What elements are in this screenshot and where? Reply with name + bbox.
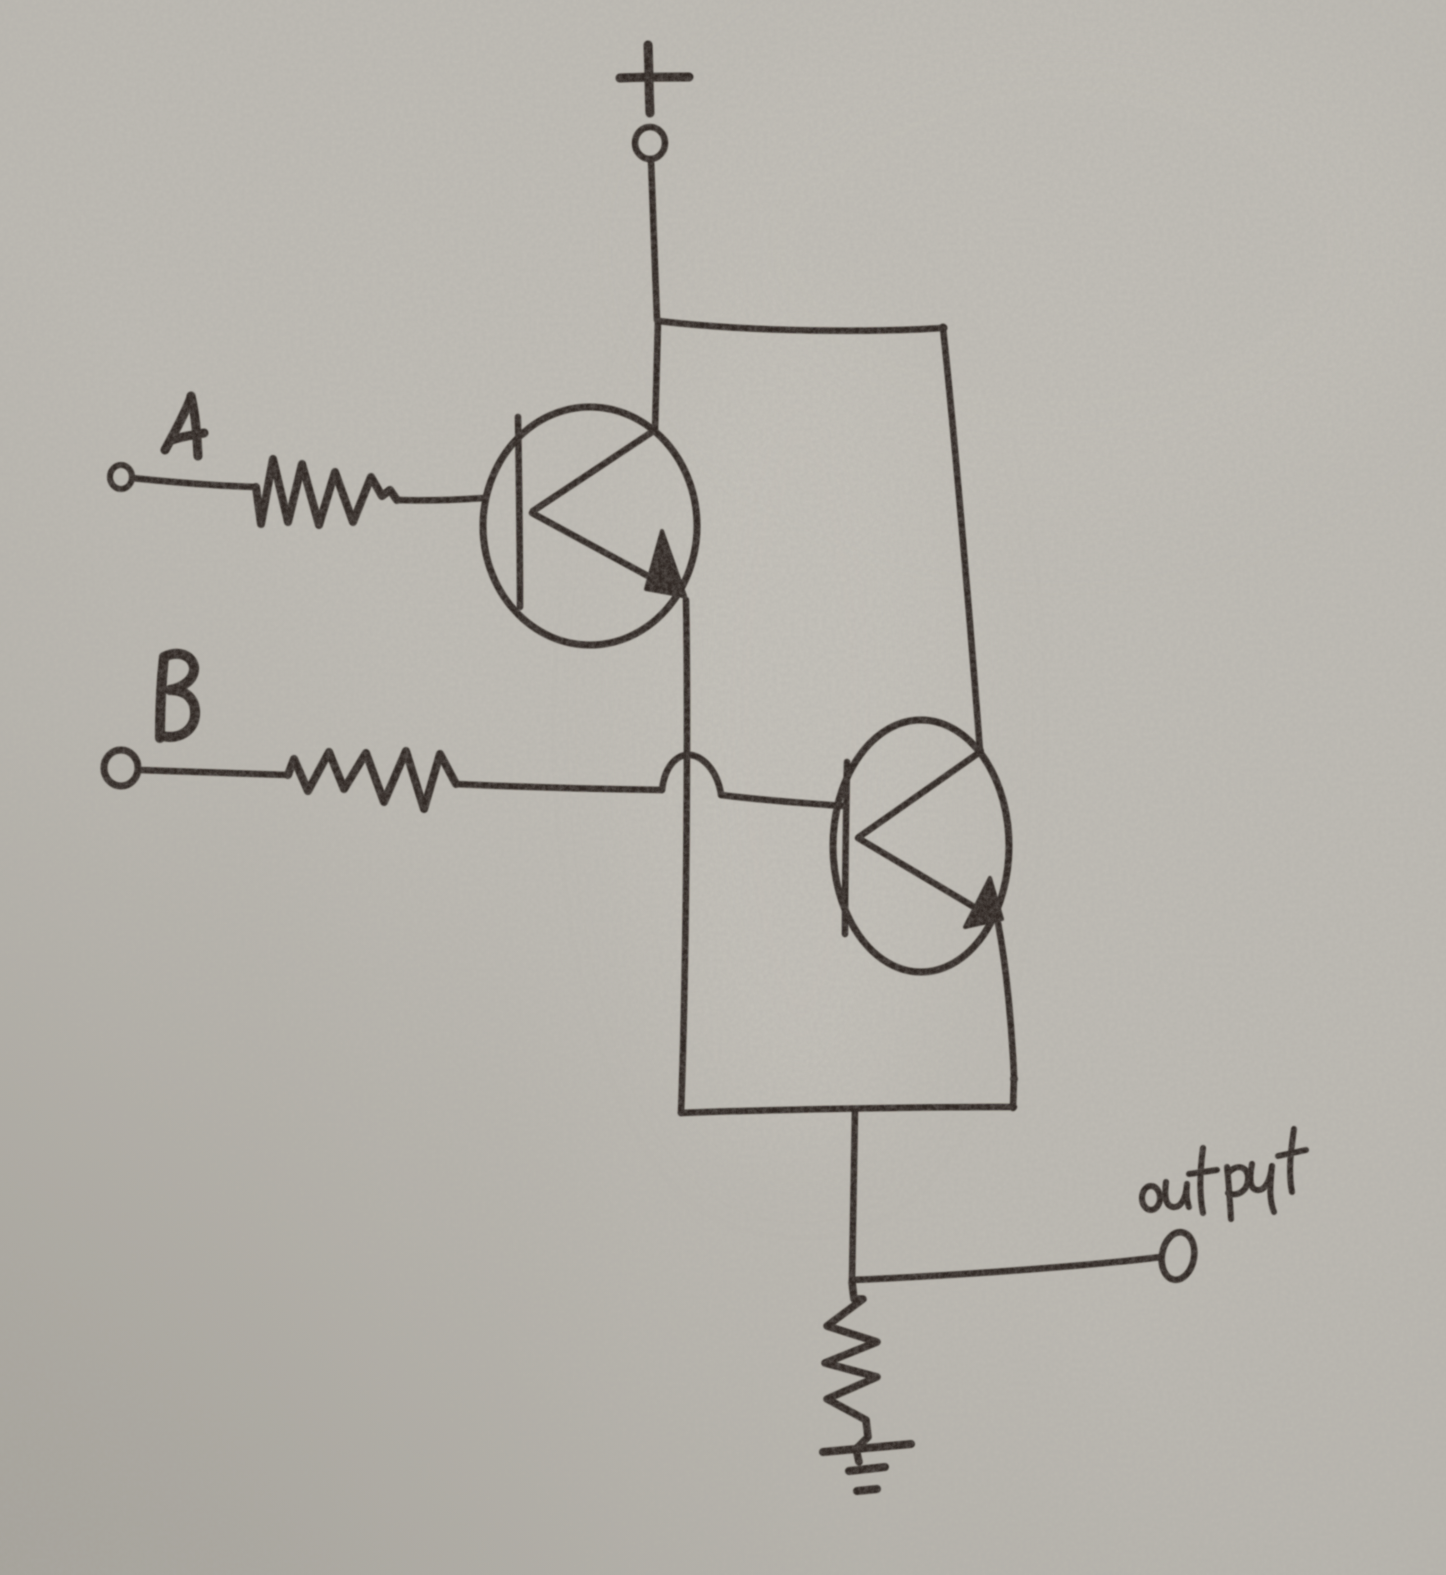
wire right vertical down to Q2 collector [943,328,980,751]
label B [160,654,195,738]
resistor R2 (input B) [288,751,456,809]
Q1 body circle [483,407,697,645]
wire A to resistor [132,478,256,487]
wire resistor B to hop [456,784,662,790]
Q2 base bar [845,762,847,934]
Q1 emitter lead [532,513,683,595]
wire junction down into Q1 collector [655,320,658,431]
wire hop over Q1 emitter [662,755,721,794]
power terminal [635,127,665,159]
resistor R1 (input A) [256,459,397,525]
Q2 body circle [833,720,1009,972]
power plus symbol [620,45,689,113]
Q1 emitter arrowhead [646,531,685,596]
wire hop to Q2 base [721,795,843,806]
junction blob at Q2 collector [976,747,984,755]
junction blob at emitter corner [1010,1075,1018,1083]
Q1 collector lead [533,430,655,511]
wire B to resistor [139,770,288,775]
resistor R3 (to ground) [825,1282,877,1462]
Q2 collector lead [859,752,980,837]
transistor Q1 [483,407,697,645]
wire from power terminal down [651,160,657,320]
wire Q1 emitter down [681,600,687,1113]
label output [1142,1129,1306,1219]
wire top rail to right [658,321,943,331]
ground [823,1444,911,1491]
wire bottom rail [681,1107,1014,1113]
input A terminal [110,465,132,489]
Q2 emitter lead [858,838,996,920]
Q2 emitter arrowhead [965,878,1002,927]
wire Q2 emitter down [998,923,1014,1108]
output terminal [1158,1230,1198,1283]
transistor Q2 [833,720,1009,972]
wire output stem down [852,1109,855,1281]
wire resistor to Q1 base [397,498,484,500]
wire to output terminal [852,1257,1161,1280]
label A [165,396,204,456]
junction blob top-right corner [939,324,948,333]
Q1 base bar [518,417,520,607]
input B terminal [104,750,138,786]
